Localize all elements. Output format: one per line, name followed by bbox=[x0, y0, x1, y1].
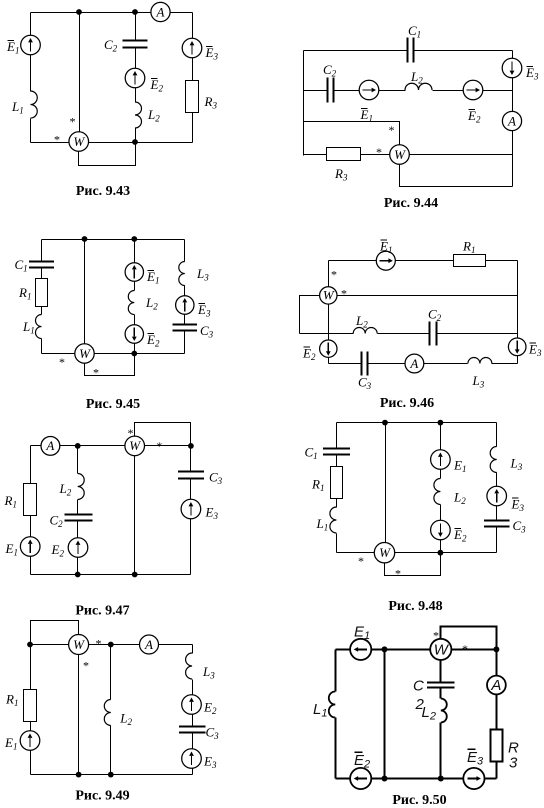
source E3 (9.45) bbox=[176, 296, 194, 314]
wire: 9.45 left branch bbox=[41, 240, 43, 354]
label E1 (9.46) bbox=[379, 239, 392, 256]
svg-text:C1: C1 bbox=[408, 23, 421, 40]
inductor L2 (9.49) bbox=[104, 700, 111, 726]
wire: 9.50 bottom rail bbox=[336, 778, 497, 780]
capacitor C2 (9.47) bbox=[65, 515, 93, 521]
wire: 9.44 top rail bbox=[304, 50, 513, 52]
wire: 9.48 top rail bbox=[337, 422, 497, 424]
svg-text:A: A bbox=[409, 356, 418, 371]
svg-text:L3: L3 bbox=[472, 373, 485, 390]
capacitor C3 (9.49) bbox=[179, 727, 205, 733]
svg-text:C2: C2 bbox=[428, 307, 442, 324]
wire: 9.47 wattmeter loop bbox=[135, 423, 191, 446]
svg-text:L2: L2 bbox=[147, 107, 160, 124]
label E2 (9.48) bbox=[453, 527, 467, 544]
wire: 9.43 bottom rail bbox=[31, 142, 193, 144]
svg-text:E3: E3 bbox=[525, 65, 539, 82]
wire: 9.46 left vertical bbox=[328, 261, 330, 288]
svg-text:Рис. 9.46: Рис. 9.46 bbox=[380, 396, 434, 411]
svg-text:E1: E1 bbox=[5, 541, 18, 558]
source E3 (9.48) bbox=[487, 486, 507, 506]
inductor L1 (9.48) bbox=[330, 507, 336, 533]
wire: 9.46 middle row bbox=[300, 333, 518, 335]
svg-text:E3: E3 bbox=[511, 497, 525, 514]
wire: 9.45 middle branch bbox=[134, 240, 136, 354]
source E2 (9.50) bbox=[350, 768, 371, 789]
source E3 (9.50) bbox=[463, 768, 484, 789]
label E2 (9.43) bbox=[150, 77, 164, 94]
svg-text:*: * bbox=[156, 439, 162, 453]
svg-text:*: * bbox=[376, 145, 382, 159]
svg-text:Рис. 9.50: Рис. 9.50 bbox=[392, 793, 446, 808]
svg-text:L2: L2 bbox=[119, 711, 132, 728]
wire: 9.47 left branch bbox=[30, 446, 32, 575]
svg-text:E2: E2 bbox=[146, 332, 160, 349]
ammeter A (9.50) bbox=[487, 676, 506, 695]
svg-text:Рис. 9.44: Рис. 9.44 bbox=[384, 196, 438, 211]
source E1 (9.44) bbox=[359, 80, 379, 100]
wattmeter W (9.43) bbox=[69, 132, 89, 152]
wattmeter W (9.45) bbox=[75, 344, 94, 363]
svg-text:A: A bbox=[507, 113, 516, 128]
wire: 9.43 wattmeter loop bbox=[79, 143, 136, 166]
svg-text:E2: E2 bbox=[51, 542, 65, 559]
svg-text:Рис. 9.49: Рис. 9.49 bbox=[75, 789, 129, 804]
node dot (9.47 bottom-mid) bbox=[75, 572, 81, 578]
svg-text:L2: L2 bbox=[410, 69, 423, 86]
wire: 9.48 middle branch bbox=[440, 423, 442, 553]
svg-text:3: 3 bbox=[509, 755, 518, 772]
wire: 9.43 wattmeter potential lead bbox=[79, 13, 81, 143]
wire: 9.43 top rail bbox=[31, 12, 193, 14]
svg-text:C2: C2 bbox=[50, 513, 64, 530]
wire: 9.43 middle branch bbox=[135, 13, 137, 143]
svg-text:C: C bbox=[413, 678, 424, 695]
node dot (9.47 top-right) bbox=[188, 443, 194, 449]
label E2 (9.50) bbox=[354, 752, 370, 771]
node dot (9.50 top-mid) bbox=[382, 646, 388, 652]
svg-text:E3: E3 bbox=[203, 754, 217, 771]
svg-text:R1: R1 bbox=[18, 285, 31, 302]
wire: 9.48 wattmeter loop bbox=[385, 553, 441, 576]
svg-text:E2: E2 bbox=[302, 346, 316, 363]
capacitor C2 (9.46) bbox=[430, 322, 437, 346]
svg-text:C2: C2 bbox=[104, 37, 118, 54]
label E1 (9.45) bbox=[146, 269, 159, 286]
svg-text:R1: R1 bbox=[5, 692, 18, 709]
wire: 9.50 W branch bbox=[440, 661, 442, 779]
node dot (9.49 top-mid) bbox=[108, 642, 114, 648]
wire: 9.46 W bottom lead bbox=[328, 304, 330, 364]
node dot (9.43 bottom-mid) bbox=[132, 139, 138, 145]
wire: 9.49 bottom rail bbox=[31, 774, 193, 776]
svg-text:L1: L1 bbox=[316, 516, 329, 533]
capacitor C2 (9.44) bbox=[328, 78, 334, 103]
wattmeter W (9.44) bbox=[390, 145, 410, 165]
svg-text:Рис. 9.45: Рис. 9.45 bbox=[86, 397, 140, 412]
svg-text:E3: E3 bbox=[197, 302, 211, 319]
svg-text:*: * bbox=[433, 629, 439, 643]
svg-text:*: * bbox=[128, 426, 134, 440]
node dot (9.50 top-right) bbox=[493, 646, 499, 652]
wire: 9.49 top rail bbox=[31, 644, 193, 646]
node dot (9.45 bottom-mid) bbox=[131, 351, 137, 357]
svg-text:W: W bbox=[79, 346, 91, 361]
wire: 9.49 wattmeter loop bbox=[31, 621, 79, 645]
inductor L1 (9.43) bbox=[31, 91, 38, 118]
svg-text:L2: L2 bbox=[422, 704, 436, 723]
resistor R1 (9.47) bbox=[24, 484, 37, 516]
wire: 9.43 left branch bbox=[30, 13, 32, 143]
svg-text:L1: L1 bbox=[22, 319, 35, 336]
wire: 9.48 bottom rail bbox=[337, 552, 497, 554]
wire: 9.47 top rail bbox=[31, 445, 191, 447]
wattmeter W (9.50) bbox=[430, 639, 451, 660]
svg-text:*: * bbox=[395, 567, 401, 581]
wattmeter W (9.47) bbox=[125, 436, 145, 456]
svg-text:E2: E2 bbox=[354, 752, 370, 771]
svg-text:E2: E2 bbox=[203, 700, 217, 717]
svg-text:L3: L3 bbox=[510, 456, 523, 473]
svg-text:L2: L2 bbox=[59, 481, 72, 498]
inductor L2 (9.43) bbox=[135, 102, 142, 128]
source E1 (9.50) bbox=[350, 639, 371, 660]
svg-text:W: W bbox=[323, 288, 335, 303]
inductor L2 (9.44) bbox=[405, 83, 432, 90]
svg-text:Рис. 9.43: Рис. 9.43 bbox=[76, 184, 130, 199]
svg-text:*: * bbox=[83, 659, 89, 673]
svg-text:L3: L3 bbox=[196, 266, 209, 283]
source E1 (9.49) bbox=[20, 731, 40, 751]
source E1 (9.47) bbox=[20, 537, 40, 557]
svg-text:*: * bbox=[358, 554, 364, 568]
svg-text:A: A bbox=[144, 637, 153, 652]
inductor L2 (9.46) bbox=[353, 328, 377, 334]
node dot (9.49 top-left) bbox=[27, 642, 33, 648]
wire: 9.44 wattmeter loop bbox=[400, 165, 513, 187]
node dot (9.47 bottom W) bbox=[132, 572, 138, 578]
node dot (9.43 top-mid) bbox=[132, 9, 138, 15]
svg-text:*: * bbox=[93, 366, 99, 380]
source E2 (9.47) bbox=[68, 538, 88, 558]
wire: 9.46 W left lead bbox=[300, 296, 329, 334]
ammeter A (9.47) bbox=[41, 437, 60, 456]
label L2 (9.50) bbox=[415, 696, 436, 723]
svg-text:L2: L2 bbox=[145, 295, 158, 312]
source E2 (9.44) bbox=[463, 80, 483, 100]
ammeter A (9.49) bbox=[140, 635, 159, 654]
svg-text:C3: C3 bbox=[206, 725, 220, 742]
wire: 9.45 top rail bbox=[42, 239, 185, 241]
label E2 (9.44) bbox=[467, 108, 481, 125]
wire: 9.45 wattmeter potential lead bbox=[84, 240, 86, 354]
svg-text:R3: R3 bbox=[204, 94, 218, 111]
wattmeter W (9.49) bbox=[69, 635, 89, 655]
wire: 9.47 W bottom lead bbox=[134, 456, 136, 575]
svg-text:L2: L2 bbox=[453, 490, 466, 507]
label E1 (9.43) bbox=[6, 39, 19, 56]
inductor L2 (9.45) bbox=[128, 291, 134, 315]
svg-text:W: W bbox=[394, 147, 406, 162]
wire: 9.44 second row bbox=[304, 90, 513, 92]
svg-text:L1: L1 bbox=[11, 99, 24, 116]
svg-text:C3: C3 bbox=[513, 518, 527, 535]
source E1 (9.43) bbox=[21, 35, 41, 55]
svg-text:W: W bbox=[73, 637, 85, 652]
svg-text:E1: E1 bbox=[4, 735, 17, 752]
resistor R3 (9.44) bbox=[327, 148, 361, 161]
svg-text:*: * bbox=[96, 637, 102, 651]
svg-text:C3: C3 bbox=[358, 375, 372, 392]
source E2 (9.49) bbox=[182, 695, 202, 715]
source E2 (9.48) bbox=[431, 520, 451, 540]
label E1 (9.44) bbox=[360, 107, 373, 124]
svg-text:C3: C3 bbox=[200, 323, 214, 340]
label E2 (9.45) bbox=[146, 332, 160, 349]
wire: 9.44 bottom row bbox=[304, 154, 513, 156]
label E3 (9.50) bbox=[467, 749, 484, 768]
svg-text:A: A bbox=[490, 677, 501, 694]
svg-text:*: * bbox=[59, 355, 65, 369]
label E3 (9.45) bbox=[197, 302, 211, 319]
wire: 9.49 left branch bbox=[30, 645, 32, 775]
wire: 9.47 bottom rail bbox=[31, 574, 191, 576]
svg-text:L3: L3 bbox=[202, 664, 215, 681]
svg-text:Рис. 9.48: Рис. 9.48 bbox=[388, 599, 442, 614]
node dot (9.48 top-mid) bbox=[438, 420, 444, 426]
node dot (9.49 bottom-mid) bbox=[108, 772, 114, 778]
source E3 (9.47) bbox=[181, 499, 201, 519]
source E1 (9.48) bbox=[431, 450, 451, 470]
wattmeter W (9.48) bbox=[374, 543, 394, 563]
node dot (9.43 top-left) bbox=[76, 9, 82, 15]
wire: 9.46 top rail bbox=[329, 260, 518, 262]
svg-text:R1: R1 bbox=[4, 493, 17, 510]
svg-text:*: * bbox=[70, 115, 76, 129]
svg-text:E1: E1 bbox=[354, 624, 370, 643]
wire: 9.49 second branch bbox=[110, 645, 112, 775]
capacitor C1 (9.45) bbox=[29, 262, 54, 268]
source E2 (9.46) bbox=[320, 340, 337, 357]
capacitor C (9.50) bbox=[427, 683, 455, 688]
resistor R (9.50) bbox=[491, 730, 503, 762]
label E3 (9.48) bbox=[511, 497, 525, 514]
svg-text:E2: E2 bbox=[453, 527, 467, 544]
wire: 9.49 right branch bbox=[192, 645, 194, 775]
label E3 (9.46) bbox=[528, 342, 542, 359]
wire: 9.44 right rail bbox=[512, 51, 514, 187]
svg-text:E3: E3 bbox=[205, 45, 219, 62]
svg-text:C3: C3 bbox=[209, 470, 223, 487]
svg-text:C2: C2 bbox=[323, 62, 337, 79]
wattmeter W (9.46) bbox=[320, 287, 337, 304]
svg-text:E3: E3 bbox=[467, 749, 484, 768]
source E3 (9.43) bbox=[182, 38, 202, 58]
capacitor C2 (9.43) bbox=[123, 41, 148, 48]
resistor R3 (9.43) bbox=[186, 81, 199, 113]
ammeter A (9.43) bbox=[151, 2, 170, 21]
svg-text:Рис. 9.47: Рис. 9.47 bbox=[75, 604, 129, 619]
node dot (9.45 top-left) bbox=[82, 236, 88, 242]
svg-text:E1: E1 bbox=[379, 239, 392, 256]
inductor L1 (9.45) bbox=[36, 315, 42, 339]
node dot (9.50 bottom-mid) bbox=[382, 776, 388, 782]
capacitor C3 (9.47) bbox=[178, 472, 204, 479]
svg-text:E3: E3 bbox=[528, 342, 542, 359]
inductor L3 (9.46) bbox=[468, 358, 492, 364]
svg-text:R1: R1 bbox=[462, 239, 475, 256]
svg-text:L2: L2 bbox=[355, 313, 368, 330]
wire: 9.48 wattmeter potential lead bbox=[385, 423, 387, 553]
wire: 9.49 W bottom lead bbox=[78, 655, 80, 775]
svg-text:R1: R1 bbox=[311, 477, 324, 494]
svg-text:E1: E1 bbox=[146, 269, 159, 286]
resistor R1 (9.48) bbox=[331, 467, 343, 499]
svg-text:W: W bbox=[73, 134, 85, 149]
wire: 9.50 middle vertical bbox=[384, 650, 386, 779]
svg-text:E1: E1 bbox=[453, 458, 466, 475]
capacitor C1 (9.44) bbox=[408, 38, 414, 63]
inductor L2 (9.48) bbox=[434, 479, 441, 505]
source E3 (9.44) bbox=[502, 58, 522, 78]
wire: 9.50 left branch bbox=[335, 650, 337, 779]
inductor L1 (9.50) bbox=[329, 692, 336, 718]
svg-text:A: A bbox=[45, 438, 54, 453]
svg-text:*: * bbox=[341, 287, 347, 301]
svg-text:*: * bbox=[389, 123, 395, 137]
label E2 (9.46) bbox=[302, 346, 316, 363]
svg-text:E2: E2 bbox=[150, 77, 164, 94]
wire: 9.46 bottom row bbox=[329, 363, 518, 365]
svg-text:E1: E1 bbox=[6, 39, 19, 56]
svg-text:*: * bbox=[54, 133, 60, 147]
ammeter A (9.44) bbox=[502, 111, 521, 130]
wire: 9.44 wattmeter potential lead bbox=[304, 122, 400, 146]
node dot (9.45 top-mid) bbox=[131, 236, 137, 242]
resistor R1 (9.45) bbox=[36, 279, 48, 307]
source E2 (9.45) bbox=[125, 325, 143, 343]
wire: 9.50 wattmeter loop bbox=[441, 627, 497, 650]
source E3 (9.46) bbox=[508, 338, 526, 356]
label E3 (9.43) bbox=[205, 45, 219, 62]
svg-text:R3: R3 bbox=[334, 166, 348, 183]
svg-text:L1: L1 bbox=[313, 701, 327, 720]
wire: 9.46 right rail bbox=[517, 261, 519, 364]
inductor L2 (9.47) bbox=[78, 474, 85, 500]
svg-text:W: W bbox=[434, 641, 450, 658]
wire: 9.50 top rail bbox=[336, 649, 497, 651]
svg-text:A: A bbox=[156, 4, 165, 19]
node dot (9.50 bottom-W) bbox=[438, 776, 444, 782]
wire: 9.48 right branch bbox=[496, 423, 498, 553]
inductor L3 (9.48) bbox=[490, 447, 496, 473]
node dot (9.48 bottom-mid) bbox=[438, 550, 444, 556]
wire: 9.46 W right row bbox=[329, 295, 518, 297]
svg-text:*: * bbox=[331, 268, 337, 282]
svg-text:E2: E2 bbox=[467, 108, 481, 125]
svg-text:C1: C1 bbox=[305, 445, 318, 462]
resistor R1 (9.46) bbox=[454, 255, 486, 267]
svg-text:W: W bbox=[379, 545, 391, 560]
svg-text:W: W bbox=[129, 438, 141, 453]
inductor L3 (9.45) bbox=[179, 262, 185, 286]
node dot (9.48 top-left) bbox=[382, 420, 388, 426]
resistor R1 (9.49) bbox=[24, 690, 37, 722]
svg-text:C1: C1 bbox=[15, 257, 28, 274]
inductor L3 (9.49) bbox=[186, 653, 193, 679]
source E1 (9.45) bbox=[125, 263, 143, 281]
wire: 9.48 left branch bbox=[336, 423, 338, 553]
capacitor C3 (9.45) bbox=[173, 325, 198, 331]
svg-text:E3: E3 bbox=[205, 505, 219, 522]
label E3 (9.44) bbox=[525, 65, 539, 82]
source E3 (9.49) bbox=[182, 749, 202, 769]
wire: 9.45 right branch bbox=[184, 240, 186, 354]
source E2 (9.43) bbox=[125, 68, 145, 88]
capacitor C3 (9.48) bbox=[484, 521, 510, 527]
node dot (9.47 top-mid) bbox=[75, 443, 81, 449]
wire: 9.43 right branch bbox=[192, 13, 194, 143]
wire: 9.44 left rail bbox=[303, 51, 305, 156]
capacitor C3 (9.46) bbox=[362, 352, 368, 376]
wire: 9.47 second branch bbox=[77, 446, 79, 575]
svg-text:*: * bbox=[462, 642, 468, 656]
node dot (9.49 bottom W) bbox=[76, 772, 82, 778]
ammeter A (9.46) bbox=[405, 354, 424, 373]
wire: 9.47 right branch bbox=[190, 446, 192, 575]
wire: 9.45 bottom rail bbox=[42, 353, 185, 355]
wire: 9.45 wattmeter loop bbox=[85, 354, 135, 376]
inductor L2 (9.50) bbox=[441, 699, 447, 723]
capacitor C1 (9.48) bbox=[323, 449, 350, 455]
source E1 (9.46) bbox=[376, 251, 395, 270]
wire: 9.50 right rail bbox=[496, 650, 498, 779]
